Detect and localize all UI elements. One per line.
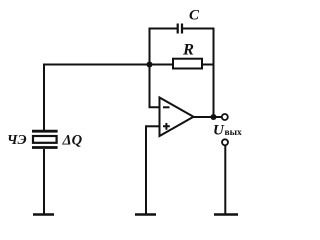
- capacitor C: [178, 24, 182, 34]
- wire: right rail vertical: [213, 28, 215, 118]
- resistor R: [173, 59, 202, 69]
- wire: sensor top up and right to summing node: [44, 65, 150, 131]
- svg-text:U: U: [213, 123, 225, 139]
- wire: non-inverting input down to ground: [145, 125, 147, 213]
- wire: junction up to capacitor left lead: [150, 29, 178, 66]
- wire: lower terminal down to ground: [224, 146, 226, 214]
- terminal: output upper: [222, 114, 228, 120]
- ground (right): [214, 213, 238, 216]
- wire: summing node to resistor left lead: [150, 64, 174, 66]
- wire: junction down to inverting input: [150, 65, 160, 108]
- wire: non-inverting input stub: [146, 125, 160, 127]
- sensor element ЧЭ (piezo): [32, 131, 58, 147]
- svg-text:ЧЭ: ЧЭ: [7, 133, 27, 148]
- node: output junction: [211, 114, 217, 120]
- op-amp U1: [160, 98, 194, 137]
- wire: sensor bottom to ground: [43, 149, 45, 214]
- node: summing junction: [147, 62, 153, 68]
- svg-text:C: C: [189, 8, 200, 24]
- wire: resistor right lead to right rail: [202, 64, 214, 66]
- ground (middle): [135, 213, 156, 216]
- wire: op-amp output to terminal: [194, 116, 222, 118]
- wire: capacitor right lead to right rail: [182, 28, 214, 30]
- svg-text:R: R: [182, 42, 194, 59]
- terminal: output lower: [222, 139, 228, 145]
- svg-text:вых: вых: [225, 128, 243, 138]
- ground (left): [33, 213, 54, 216]
- svg-text:ΔQ: ΔQ: [62, 133, 83, 149]
